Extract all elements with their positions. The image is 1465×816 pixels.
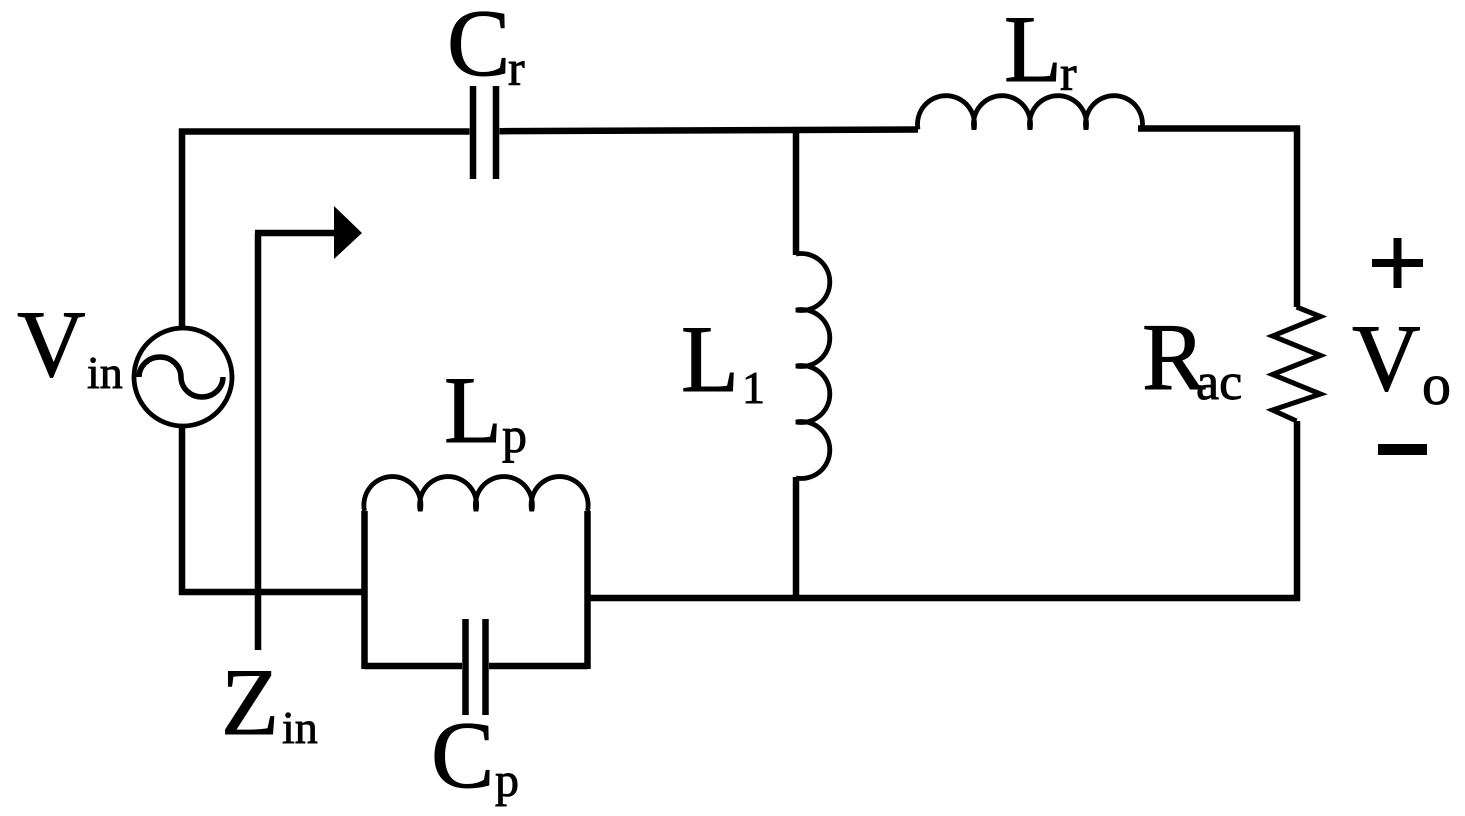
label Cp — [431, 702, 519, 808]
svg-text:p: p — [502, 407, 527, 463]
svg-text:V: V — [17, 291, 86, 397]
svg-text:L: L — [681, 306, 739, 412]
wire: block bottom path left of Cp — [365, 663, 463, 670]
minus sign (Vo polarity) — [1378, 444, 1427, 455]
svg-text:1: 1 — [742, 362, 765, 413]
label Lr — [1004, 0, 1077, 102]
wire: L1 vertical top — [793, 127, 800, 255]
label Lp — [444, 357, 527, 463]
resistor Rac zigzag — [1273, 307, 1321, 421]
inductor Lp (4 humps, top of block) — [364, 477, 588, 511]
svg-text:C: C — [447, 0, 510, 96]
Zin probe arrow: vertical line — [255, 233, 262, 650]
capacitor Cr plates — [473, 86, 496, 179]
svg-text:in: in — [87, 347, 123, 398]
inductor L1 (4 humps vertical) — [796, 254, 830, 479]
svg-text:L: L — [444, 357, 502, 463]
label Vin — [17, 291, 123, 398]
inductor Lr (4 humps on top rail) — [918, 96, 1143, 130]
source sine wave — [139, 357, 223, 397]
label L1 — [681, 306, 765, 413]
wire: top rail right segment (Lr end to top-right corner) — [1138, 125, 1300, 132]
wire: top rail left segment (source top corner to Cr left plate) — [179, 128, 470, 135]
svg-text:ac: ac — [1196, 354, 1242, 411]
capacitor Cp plates — [466, 619, 486, 715]
svg-text:L: L — [1004, 0, 1062, 102]
Zin probe arrowhead — [334, 206, 362, 259]
label Cr — [447, 0, 525, 96]
svg-text:p: p — [495, 754, 519, 807]
wire: right vertical (resistor to bottom corner) — [1294, 421, 1301, 601]
svg-text:V: V — [1352, 305, 1421, 411]
source Vin circle — [134, 328, 232, 426]
wire: left vertical below source — [179, 424, 186, 595]
plus sign (Vo polarity) — [1372, 238, 1423, 288]
svg-text:r: r — [508, 40, 525, 96]
wire: left vertical above source — [179, 129, 186, 331]
wire: right vertical (top corner to resistor) — [1294, 126, 1301, 308]
svg-text:o: o — [1422, 352, 1451, 417]
parallel block Lp/Cp: left side vertical — [361, 511, 368, 669]
label Zin — [221, 649, 318, 755]
wire: bottom rail right segment — [588, 595, 1301, 602]
wire: L1 vertical bottom — [793, 477, 800, 601]
svg-text:Z: Z — [221, 649, 279, 755]
svg-text:r: r — [1060, 45, 1077, 101]
svg-text:in: in — [282, 702, 318, 753]
wire: block bottom path right of Cp — [489, 663, 588, 670]
Zin probe arrow: horizontal line — [255, 230, 338, 237]
label Rac — [1142, 304, 1242, 411]
svg-text:C: C — [431, 702, 494, 808]
parallel block Lp/Cp: right side vertical — [584, 511, 591, 669]
wire: bottom rail left segment — [179, 589, 365, 596]
wire: top rail middle segment (Cr right plate to Lr start, through node at L1 top) — [500, 130, 919, 132]
label Vo — [1352, 305, 1451, 417]
